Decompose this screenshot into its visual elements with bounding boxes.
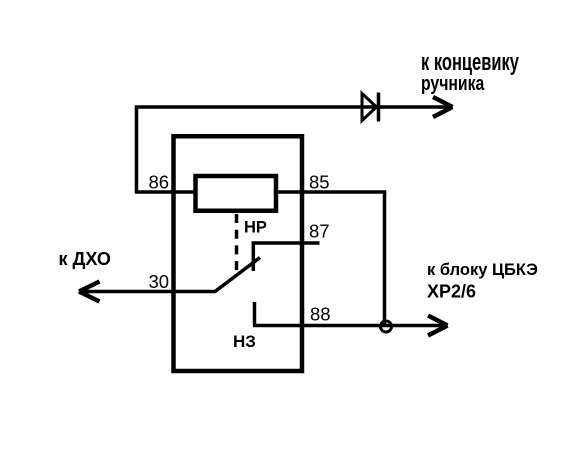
svg-text:ручника: ручника bbox=[421, 71, 485, 95]
switch arm from 30 bbox=[79, 258, 260, 292]
diode VD1 bbox=[362, 93, 379, 122]
arrow to DRL (к ДХО) bbox=[79, 282, 100, 302]
svg-text:к блоку ЦБКЭ: к блоку ЦБКЭ bbox=[427, 261, 538, 279]
wire pin 88 horizontal bbox=[253, 324, 445, 328]
wire top horizontal to diode bbox=[135, 105, 450, 109]
svg-text:85: 85 bbox=[309, 172, 330, 193]
svg-text:88: 88 bbox=[310, 304, 331, 325]
wire pin 86 horizontal bbox=[135, 190, 194, 194]
wire right vertical from 85 down to junction bbox=[383, 192, 387, 326]
arrow to CBKE block bbox=[428, 316, 448, 336]
svg-text:86: 86 bbox=[149, 172, 170, 193]
label pin 30 bbox=[149, 271, 170, 292]
svg-text:к ДХО: к ДХО bbox=[59, 249, 111, 269]
svg-text:НЗ: НЗ bbox=[233, 332, 256, 351]
junction node circle bbox=[381, 321, 392, 332]
arrow to handbrake switch bbox=[433, 97, 453, 117]
svg-text:87: 87 bbox=[309, 221, 330, 242]
svg-text:30: 30 bbox=[149, 271, 170, 292]
label pin 87 bbox=[309, 221, 330, 242]
relay box K1 bbox=[174, 136, 303, 371]
svg-text:ХР2/6: ХР2/6 bbox=[427, 282, 476, 302]
relay coil bbox=[196, 176, 277, 211]
wire pin 85 horizontal bbox=[277, 190, 386, 194]
svg-text:НР: НР bbox=[244, 219, 267, 237]
label pin 85 bbox=[309, 172, 330, 193]
label: к блоку ЦБКЭ XP2/6 bbox=[427, 261, 538, 302]
dashed actuator link bbox=[235, 214, 239, 272]
label pin 86 bbox=[149, 172, 170, 193]
contact 87 stub bbox=[253, 243, 319, 271]
wire left vertical from top wire to pin 86 bbox=[135, 107, 139, 192]
label pin 88 bbox=[310, 304, 331, 325]
contact 88 stub (НЗ) bbox=[253, 302, 257, 326]
label НЗ (normally closed) bbox=[233, 332, 256, 351]
label HP (normally open) bbox=[244, 219, 267, 237]
label: к концевику ручника bbox=[421, 49, 519, 94]
label: к ДХО bbox=[59, 249, 111, 269]
